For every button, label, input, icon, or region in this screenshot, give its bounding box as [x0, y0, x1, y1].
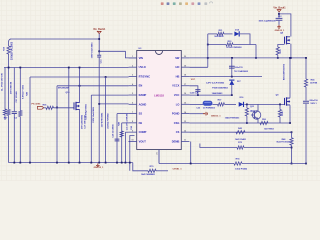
svg-text:100V 2.2µR/N1206: 100V 2.2µR/N1206: [258, 21, 276, 23]
svg-text:100V 10uK/9803: 100V 10uK/9803: [93, 106, 95, 123]
svg-text:104Ω F/SR0603: 104Ω F/SR0603: [225, 116, 240, 119]
svg-text:GND13_1: GND13_1: [275, 30, 286, 32]
svg-text:C27 2P2/48: C27 2P2/48: [15, 91, 18, 103]
svg-text:EN: EN: [139, 84, 143, 88]
svg-text:VCCX: VCCX: [172, 84, 179, 88]
svg-text:5kΩ F/A0R402: 5kΩ F/A0R402: [141, 173, 155, 176]
svg-text:RAMP: RAMP: [139, 93, 147, 97]
svg-text:CSG: CSG: [174, 121, 180, 125]
svg-text:NuΩ F/CS1206: NuΩ F/CS1206: [277, 142, 292, 144]
svg-text:VCC: VCC: [174, 93, 180, 97]
svg-text:LO: LO: [176, 102, 180, 106]
svg-text:50V 2280/9803: 50V 2280/9803: [81, 114, 83, 129]
svg-text:C20 22n/9803: C20 22n/9803: [112, 124, 114, 138]
svg-text:20 F/SR0603: 20 F/SR0603: [203, 108, 216, 110]
svg-text:VCC: VCC: [191, 79, 196, 81]
svg-text:GND13_1: GND13_1: [211, 116, 222, 118]
svg-text:5Ω F/9803: 5Ω F/9803: [264, 129, 274, 131]
svg-text:VIN: VIN: [139, 56, 143, 60]
svg-text:24.9kΩ F/R0402: 24.9kΩ F/R0402: [106, 112, 109, 128]
svg-text:Vin_Buck1: Vin_Buck1: [273, 7, 286, 10]
svg-text:NTCW628K: NTCW628K: [58, 88, 70, 90]
svg-text:4.7kΩ F/SR0803: 4.7kΩ F/SR0803: [226, 46, 242, 49]
svg-text:100V 10uK/9803: 100V 10uK/9803: [92, 42, 94, 59]
svg-text:HB: HB: [176, 74, 180, 78]
svg-text:DEMB: DEMB: [172, 139, 180, 143]
svg-text:Vin_Buck1: Vin_Buck1: [93, 28, 106, 31]
svg-text:NLF/9803: NLF/9803: [215, 36, 225, 38]
svg-text:RT/SYNC: RT/SYNC: [139, 74, 151, 78]
svg-text:P16M 104K/9803: P16M 104K/9803: [212, 86, 228, 89]
svg-text:104K/9803: 104K/9803: [212, 92, 223, 95]
svg-text:VOUT: VOUT: [139, 139, 147, 143]
svg-text:5kΩ F/0402: 5kΩ F/0402: [235, 138, 246, 141]
svg-text:SS: SS: [139, 112, 143, 116]
svg-text:AGND: AGND: [139, 102, 147, 106]
svg-text:PGND: PGND: [172, 112, 180, 116]
svg-text:100V 1: 100V 1: [310, 103, 317, 105]
svg-text:CS: CS: [176, 130, 180, 134]
svg-text:102nC15: 102nC15: [234, 67, 243, 69]
svg-text:C31 2P2 220K/98: C31 2P2 220K/98: [127, 113, 129, 130]
svg-text:FB: FB: [139, 121, 143, 125]
svg-text:1.2PV 2.2uF K/9803: 1.2PV 2.2uF K/9803: [206, 82, 225, 84]
svg-text:70V 104K/9803: 70V 104K/9803: [234, 70, 249, 73]
svg-text:PS_DIS1: PS_DIS1: [32, 104, 42, 106]
svg-text:0.47kΩ F 5603: 0.47kΩ F 5603: [22, 84, 25, 99]
svg-text:SW: SW: [175, 56, 180, 60]
svg-text:UVLO: UVLO: [139, 65, 146, 69]
svg-text:1Ω F/98: 1Ω F/98: [310, 83, 318, 85]
svg-text:AL_V01D 50V 10K: AL_V01D 50V 10K: [0, 73, 3, 91]
svg-text:COMP: COMP: [139, 130, 147, 134]
svg-text:C26 470pF/9803: C26 470pF/9803: [85, 103, 88, 119]
svg-text:100kΩ F/AC5603: 100kΩ F/AC5603: [11, 41, 14, 60]
svg-text:CSVID_1: CSVID_1: [172, 168, 182, 170]
svg-text:1.5kΩ F/0402: 1.5kΩ F/0402: [235, 167, 248, 170]
svg-text:C24 1uF: C24 1uF: [190, 92, 199, 95]
svg-text:LM5118: LM5118: [154, 93, 164, 97]
svg-text:50V 100K/98: 50V 100K/98: [11, 81, 13, 94]
svg-text:220nC16: 220nC16: [309, 100, 318, 102]
svg-text:HO: HO: [176, 65, 180, 69]
svg-text:GND13_1: GND13_1: [94, 167, 105, 169]
svg-text:25V 470K/9803: 25V 470K/9803: [101, 112, 104, 127]
svg-text:BSC046N050S5: BSC046N050S5: [282, 63, 285, 80]
